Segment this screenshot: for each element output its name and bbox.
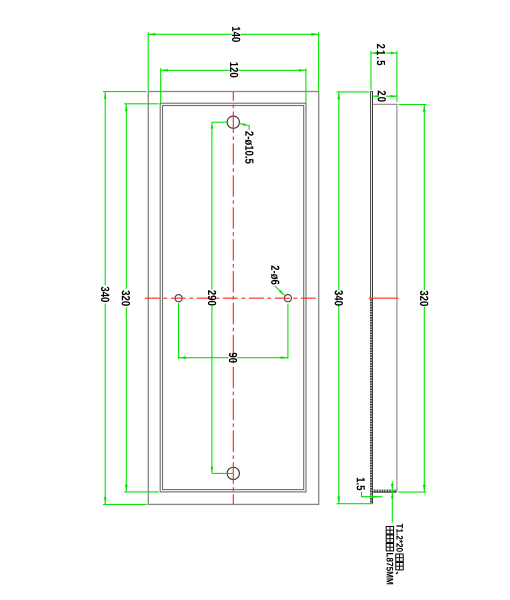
- dimension 120 line right: [239, 69, 306, 71]
- dimension 21.5 extension left: [370, 51, 372, 90]
- dimension 320 front line lower: [125, 307, 127, 492]
- dimension 120 line left: [161, 69, 230, 71]
- dimension 290 line lower: [211, 306, 213, 473]
- dimension 340 side line lower: [338, 306, 340, 504]
- dimension 1.5 text: [357, 478, 365, 490]
- dimension 320 front arrow bottom: [125, 485, 128, 492]
- side view bottom flange hatched strip: [373, 490, 397, 493]
- note text T1.2*20 iron sheet, unfolded length L875MM: [386, 524, 403, 585]
- note leader arrow up: [391, 493, 394, 499]
- dimension 90 line left: [179, 357, 229, 359]
- dimension 140 line right: [241, 33, 319, 35]
- dimension 21.5 line left: [371, 52, 376, 54]
- dimension 320 side line upper: [423, 105, 425, 291]
- dimension 140 line left: [148, 33, 232, 35]
- dimension 20 arrow left: [373, 95, 379, 98]
- front view outer plate outline 140x340: [148, 92, 318, 505]
- dimension 90 arrow right: [281, 356, 288, 359]
- dimension 21.5 arrow right: [391, 52, 397, 55]
- dimension 290 stub bottom: [212, 472, 233, 474]
- side view face sheet top cap: [370, 91, 373, 93]
- dimension 340 front line lower: [104, 303, 106, 504]
- dimension 340 front extension bottom: [103, 503, 147, 505]
- dimension 1.5 line: [362, 496, 383, 498]
- dimension 21.5 arrow left: [371, 52, 377, 55]
- dimension 20 line right: [386, 95, 397, 97]
- dimension 320 side line lower: [423, 307, 425, 492]
- dimension 290 text: [208, 290, 216, 305]
- dimension 340 side line upper: [338, 92, 340, 290]
- dimension 290 line upper: [211, 122, 213, 289]
- dimension 340 front line upper: [104, 92, 106, 286]
- side view face sheet lower hatched strip: [370, 298, 373, 504]
- dimension 340 side extension bottom: [337, 503, 373, 505]
- dimension 320 side extension bottom: [398, 491, 426, 493]
- dimension 290 arrow bottom: [211, 467, 214, 473]
- dimension 90 extension left: [178, 303, 180, 359]
- dimension 340 side arrow bottom: [337, 497, 340, 504]
- dimension 320 front extension top: [124, 103, 159, 105]
- dimension 1.5 tick: [361, 491, 363, 497]
- dimension 90 arrow left: [179, 356, 186, 359]
- dimension 320 front arrow top: [125, 104, 128, 111]
- hole right 6: [284, 295, 291, 302]
- dimension 340 front arrow bottom: [104, 497, 107, 504]
- side view flange top edge: [373, 103, 398, 105]
- dimension 320 side arrow top: [423, 105, 426, 112]
- note leader line: [391, 481, 393, 522]
- red centerline side view: [369, 297, 399, 299]
- dimension 290 stub top: [212, 121, 228, 123]
- hole bottom 10.5: [227, 467, 239, 479]
- dimension 20 line left: [373, 95, 378, 97]
- dimension 340 side arrow top: [337, 92, 340, 99]
- dimension 21.5 line right: [386, 52, 397, 54]
- side view face sheet edge upper left line: [370, 92, 372, 299]
- dimension 90 text: [229, 353, 237, 363]
- dimension 1.5 arrow: [372, 495, 379, 498]
- dimension 140 text: [232, 27, 240, 42]
- dimension 320 front line upper: [125, 104, 127, 289]
- dimension 140 arrow left: [148, 33, 155, 36]
- dimension 140 arrow right: [311, 33, 318, 36]
- dimension 320 side extension top: [399, 104, 427, 106]
- side view face sheet edge upper right line: [372, 92, 374, 299]
- label 2-dia10.5 leader: [239, 123, 249, 130]
- dimension 120 text: [230, 62, 238, 77]
- front view inner flange outline (outer line): [160, 103, 306, 492]
- dimension 120 arrow right: [299, 69, 306, 72]
- label 2-dia10.5 leader arrow: [239, 123, 246, 126]
- hole top 10.5: [227, 116, 239, 128]
- dimension 320 side arrow bottom: [423, 485, 426, 492]
- dimension 21.5 extension right: [396, 51, 398, 102]
- dimension 320 side text: [420, 291, 428, 306]
- dimension 120 arrow left: [161, 69, 168, 72]
- dimension 340 side text: [335, 290, 343, 305]
- dimension 290 arrow top: [211, 122, 214, 128]
- dimension 340 front extension top: [103, 91, 146, 93]
- dimension 21.5 text: [377, 44, 385, 65]
- dimension 140 extension line left: [147, 32, 149, 91]
- note leader arrow down: [391, 484, 394, 490]
- dimension 90 line right: [237, 357, 288, 359]
- side view flange right edge: [396, 104, 398, 492]
- label 2-dia6 leader: [275, 286, 285, 295]
- label 2-dia6 text: [271, 266, 280, 285]
- front view inner flange outline (inner line): [163, 106, 304, 490]
- dimension 340 front text: [101, 287, 109, 302]
- dimension 340 side extension top: [337, 91, 370, 93]
- hole left 6: [175, 295, 182, 302]
- label 2-dia6 leader arrow: [279, 290, 285, 295]
- dimension 20 text: [378, 91, 386, 102]
- dimension 320 front text: [122, 290, 130, 305]
- dimension 90 extension right: [287, 304, 289, 359]
- label 2-dia10.5 text: [245, 131, 254, 163]
- dimension 340 front arrow top: [104, 92, 107, 99]
- dimension 120 extension line left: [160, 68, 162, 103]
- dimension 120 extension line right: [305, 68, 307, 103]
- dimension 20 arrow right: [391, 95, 397, 98]
- red vertical centerline front view: [232, 92, 234, 504]
- red horizontal centerline front view: [145, 297, 319, 299]
- dimension 140 extension line right: [318, 32, 320, 91]
- dimension 320 front extension bottom: [124, 491, 159, 493]
